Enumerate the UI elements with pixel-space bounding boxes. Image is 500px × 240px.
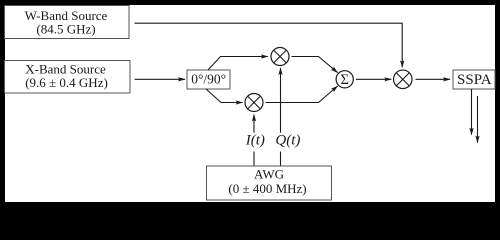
svg-text:(9.6 ± 0.4 GHz): (9.6 ± 0.4 GHz) [25,75,108,90]
output arrow A (left) [471,89,473,135]
wire W-Band to mixer U4 (top route) [135,23,403,67]
svg-text:W-Band Source: W-Band Source [25,8,108,23]
svg-text:(84.5 GHz): (84.5 GHz) [36,22,95,37]
wire hybrid to mixer U2 (bottom) [206,89,243,103]
box W-Band Source [5,6,130,39]
wire X-Band to hybrid [135,78,185,80]
wire summer to mixer U4 [356,78,391,80]
wire mixer U1 to summer [292,57,338,73]
box AWG [207,166,332,200]
box SSPA [453,70,495,89]
svg-text:SSPA: SSPA [457,72,492,88]
wire Q(t) from AWG [280,152,282,167]
svg-text:I(t): I(t) [245,133,265,149]
mixer U2 (bottom) [245,94,263,112]
svg-text:AWG: AWG [254,167,284,182]
wire mixer U4 to SSPA [416,78,451,80]
box X-Band Source [5,61,131,94]
wire I(t) from AWG [253,152,255,167]
wire hybrid to mixer U1 (top) [208,57,268,71]
mixer U1 (top) [271,48,289,66]
mixer U4 (output) [394,70,413,89]
wire mixer U2 to summer [266,86,338,103]
summer S1 [336,71,353,88]
svg-text:(0 ± 400 MHz): (0 ± 400 MHz) [228,181,306,196]
wire Q(t) up into mixer U1 [280,68,282,133]
svg-text:0°/90°: 0°/90° [191,71,226,86]
svg-text:Σ: Σ [340,72,348,88]
svg-text:Q(t): Q(t) [275,133,300,149]
output arrow B (right) [477,96,479,143]
box hybrid 0/90 [187,70,230,89]
wire I(t) up into mixer U2 [253,115,255,133]
